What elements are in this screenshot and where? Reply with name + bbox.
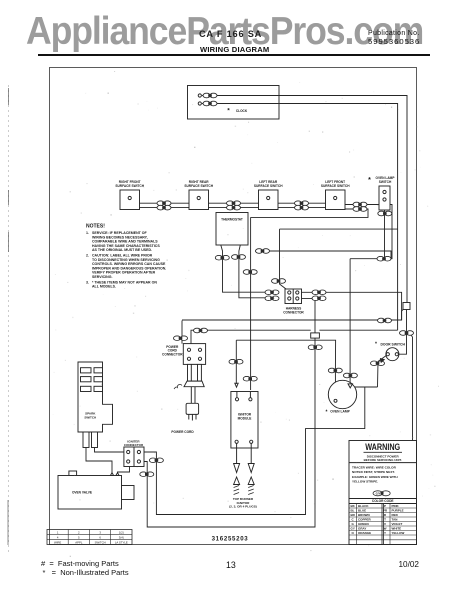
power box pin 1 [187,348,190,351]
spark switch cell 6 [94,386,103,391]
igniter pin 3 [127,460,130,463]
svg-text:CONNECTOR: CONNECTOR [124,443,144,447]
connector y330 [194,328,208,333]
module down wires [237,444,252,464]
svg-text:DOOR SWITCH: DOOR SWITCH [380,342,405,346]
bottom table text [54,531,128,545]
module left terminal triangle [235,383,238,387]
connector lamp switch [378,211,392,216]
spark switch outline [78,362,113,432]
harness right conn upper [312,290,326,295]
clock terminal 1 wire [202,95,216,97]
connector y258.7 [377,256,391,261]
publication label [368,30,420,37]
switch row wires b2-b3 [209,203,259,207]
watermark AppliancePartsPros.com [26,10,423,54]
svg-text:NOTES!: NOTES! [86,224,105,230]
thermostat left conn [215,255,229,260]
svg-text:CONNECTOR: CONNECTOR [162,352,183,356]
thermostat right conn [232,255,246,260]
svg-text:(2, 3, OR 4 PLUGS): (2, 3, OR 4 PLUGS) [229,505,257,509]
publication number [368,37,420,46]
svg-text:GRAY: GRAY [358,527,366,531]
svg-text:BL: BL [351,509,355,513]
svg-text:OVEN LAMP: OVEN LAMP [330,410,350,414]
power cord connector box [183,344,205,365]
svg-text:SURFACE SWITCH: SURFACE SWITCH [254,184,283,188]
spark switch cell 1 [81,368,92,373]
power cord lines [191,387,195,404]
connector b1-b2 lower [157,205,171,210]
surface switch b1 [120,190,140,210]
svg-text:Y: Y [384,531,386,535]
module pin stubs [237,392,251,398]
harness right lower wire [302,298,316,333]
door switch left wire [378,356,387,388]
clock terminal 2 wire [202,103,216,105]
cord grommet [188,364,202,381]
svg-text:SERVICING.: SERVICING. [92,275,112,279]
igniter to valve wire [118,467,130,473]
grommet flare [184,381,204,387]
svg-text:YELLOW: YELLOW [392,531,405,535]
svg-text:O: O [352,531,355,535]
svg-text:VIOLET: VIOLET [392,522,403,526]
up arrow 1 [234,477,240,485]
connector y251 [256,249,270,254]
svg-text:TAN: TAN [392,518,398,522]
svg-text:BLACK: BLACK [358,504,369,508]
svg-text:BLUE: BLUE [358,509,366,513]
electrode squiggle 1 [234,486,240,495]
svg-text:SURFACE SWITCH: SURFACE SWITCH [184,184,213,188]
svg-text:2: 2 [78,531,80,535]
notes block [86,224,166,289]
svg-text:THERMOSTAT: THERMOSTAT [221,218,243,222]
scanner margin artifact [7,85,10,555]
svg-text:2.: 2. [86,254,89,258]
oven lamp circle [328,380,356,408]
door switch pin left [386,353,389,356]
date [399,560,420,569]
power box pin 2 [198,348,201,351]
up arrow 2 [248,477,254,485]
harness divider [292,289,294,304]
spark switch prong wire 2 [95,448,124,453]
connector x280 [272,279,286,284]
spark switch prong 2 [92,432,98,448]
b4 pin [334,196,337,199]
color code table text [351,504,405,535]
svg-text:EXAMPLE: GREEN WIRE WITH: EXAMPLE: GREEN WIRE WITH [352,475,398,479]
b1 pin [128,196,131,199]
oven valve attachment [122,486,135,500]
model number text [199,29,262,39]
module bottom pin 1 [235,440,238,443]
door terminal triangle [381,359,385,363]
svg-text:*: * [375,342,377,348]
connector right 333 [400,331,414,336]
module left wire [235,340,237,384]
svg-text:3: 3 [99,531,101,535]
harness connector box [285,289,302,304]
igniter pin 2 [137,450,140,453]
footer legend 1 [41,559,119,568]
svg-text:NOTED FIRST, STRIPE NEXT.: NOTED FIRST, STRIPE NEXT. [352,470,395,474]
thermostat right lead wire [239,245,265,298]
connector x351 [343,373,357,378]
electrode squiggle 2 [248,486,254,495]
harness pin 1 [288,291,291,294]
svg-text:PURPLE: PURPLE [392,509,404,513]
svg-text:1: 1 [57,531,59,535]
spark switch cell 5 [81,386,92,391]
connector power drop [174,336,188,341]
warning box text [364,442,402,503]
wire after b4 lower [251,209,368,217]
wire clock A [216,96,407,303]
door switch branch to warning [410,334,413,441]
wire after b4 upper [345,205,392,259]
harness right conn lower [312,296,326,301]
title rule [38,54,430,56]
svg-text:T: T [384,518,386,522]
connector b2-b3 lower [227,205,241,210]
connector b1-b2 upper [157,201,171,206]
lamp switch pin 1 [383,190,386,193]
svg-text:ALL MODELS.: ALL MODELS. [92,285,116,289]
connector igniter upper [149,458,163,463]
oven lamp switch box [379,186,390,210]
switch row wires b3-b4 [278,203,326,207]
harness left conn lower [265,296,279,301]
jog box lower wire [398,309,406,355]
svg-text:1(2): 1(2) [119,531,124,535]
module bottom pin 2 [250,440,253,443]
harness pin 4 [296,297,299,300]
svg-text:V: V [384,522,386,526]
svg-text:*: * [368,177,371,184]
svg-text:ORANGE: ORANGE [358,531,371,535]
svg-text:BR: BR [351,513,356,517]
surface switch b2 [189,190,209,210]
clock pin 2 [198,102,201,105]
igniter connector box [124,447,144,467]
wire y251 [255,251,391,259]
harness right upper wire [302,292,402,320]
svg-text:3.: 3. [86,280,89,284]
title [200,45,269,54]
connector y320 right [378,318,392,323]
module right wire [250,217,252,390]
plug body [186,403,199,414]
bottom-left table [47,530,132,545]
loop A wire [144,387,378,515]
svg-text:4: 4 [57,535,59,539]
svg-text:6: 6 [99,535,101,539]
svg-text:SURFACE SWITCH: SURFACE SWITCH [321,184,350,188]
svg-text:CONNECTOR: CONNECTOR [283,311,304,315]
spark switch cell 2 [94,368,103,373]
svg-text:POWER CORD: POWER CORD [171,430,194,434]
svg-text:TRACER WIRE: WIRE COLOR: TRACER WIRE: WIRE COLOR [352,466,397,470]
svg-text:RED: RED [392,513,399,517]
thermostat box [216,213,248,246]
surface switch b4 [326,190,346,210]
power box pin 4 [198,357,201,360]
svg-text:BEFORE SERVICING UNIT.: BEFORE SERVICING UNIT. [364,458,402,462]
connector x250 upper [243,270,257,275]
svg-text:G/Y: G/Y [376,492,381,496]
lamp switch pin 2 [383,198,386,201]
svg-text:1.: 1. [86,231,89,235]
ignitor module box [231,392,258,449]
valve lead triangle 2 [116,473,119,476]
oven lamp pin [334,399,337,402]
svg-text:WHITE: WHITE [392,527,402,531]
module top pin 1 [235,398,238,401]
wire y330 left [191,330,311,343]
down arrow 1 [234,464,240,473]
svg-text:SURFACE SWITCH: SURFACE SWITCH [115,184,144,188]
connector after b4 upper [353,202,367,207]
svg-text:*: * [227,108,230,115]
svg-text:AS THE ORIGINAL MUST BE U: AS THE ORIGINAL MUST BE USED. [92,248,152,252]
connector b3-b4 lower [295,205,309,210]
svg-text:GREEN: GREEN [358,522,369,526]
svg-text:COPPER: COPPER [358,518,372,522]
down arrow 2 [248,464,254,473]
svg-text:*: * [326,410,328,416]
thermostat left lead wire [221,245,265,292]
module-to-lamp wire y340 [236,340,335,399]
spark switch prong wire 1 [86,448,112,473]
page number [226,560,236,570]
wire x350 to lamp [349,259,351,384]
svg-text:SWITCH: SWITCH [95,540,106,544]
svg-text:MODULE: MODULE [238,417,252,421]
b2 pin [197,196,200,199]
clock pin 1 [198,94,201,97]
junction box [311,333,320,338]
warning box [349,441,417,545]
switch row wires b1-b2 [140,203,190,207]
svg-text:YELLOW STRIPE.: YELLOW STRIPE. [352,480,378,484]
clock connector 2 [203,101,217,106]
svg-text:CLOCK: CLOCK [236,109,248,113]
clock box [188,86,280,120]
door switch circle [386,348,399,361]
connector after b4 lower [353,207,367,212]
wire y330 right [319,329,397,331]
svg-text:APPL: APPL [75,540,83,544]
svg-text:OVEN VALVE: OVEN VALVE [72,491,92,495]
grommet inner lines [191,364,197,381]
wire x279.5 harness feed [280,229,288,290]
svg-text:PR: PR [383,509,388,513]
svg-text:R: R [384,513,387,517]
svg-text:316255203: 316255203 [212,536,249,543]
surface switch b3 [259,190,279,210]
svg-text:LA STYLE: LA STYLE [115,540,128,544]
harness left conn upper [265,290,279,295]
svg-text:GY: GY [351,527,355,531]
power box pin 3 [187,357,190,360]
spark switch prong 1 [83,432,89,448]
spark switch cell 4 [94,377,103,382]
svg-text:BROWN: BROWN [358,513,370,517]
igniter pin 1 [127,450,130,453]
clock connector 1 [203,93,217,98]
junction drop loop B [144,338,315,527]
svg-text:G: G [352,522,355,526]
svg-text:WARNING: WARNING [365,442,400,452]
oven valve bump [69,471,77,476]
spark switch cell 3 [81,377,92,382]
svg-text:W: W [384,527,387,531]
connector b2-b3 upper [227,201,241,206]
power cord feed wire [182,309,404,320]
scan noise speckles [53,71,439,557]
svg-text:SWITCH: SWITCH [84,415,96,419]
svg-text:3(4): 3(4) [119,535,124,539]
igniter divider [133,447,135,467]
wire y229 [280,228,398,230]
connector igniter lower [140,472,154,477]
oven lamp right terminal [348,384,353,388]
G/Y tracer connector [373,491,390,496]
door switch pin right [395,353,398,356]
oven valve box [58,476,122,510]
valve lead triangle 1 [110,473,113,476]
strain squiggle [174,384,182,389]
svg-text:COLOR CODE: COLOR CODE [372,499,394,503]
connector lamp top [328,368,342,373]
plug prongs [189,414,196,420]
connector module right [243,376,257,381]
module top pin 2 [249,398,252,401]
svg-text:BK: BK [351,504,356,508]
connector module left [229,359,243,364]
jog box [403,303,410,310]
svg-text:WIRE: WIRE [54,540,61,544]
connector b3-b4 upper [295,201,309,206]
svg-text:5: 5 [78,535,80,539]
diagram border [50,68,417,545]
connector door drop [371,361,385,366]
svg-text:PINK: PINK [392,504,400,508]
svg-text:P: P [384,504,386,508]
power cord drop [181,321,183,344]
harness pin 3 [288,297,291,300]
harness pin 2 [296,291,299,294]
b3 pin [267,196,270,199]
footer legend 2 [43,568,129,577]
svg-text:SWITCH: SWITCH [379,180,392,184]
wire clock B [216,104,398,331]
oven lamp switch drop wire [384,210,386,259]
igniter pin 4 [137,460,140,463]
svg-text:C: C [352,518,355,522]
junction connector [308,345,322,350]
